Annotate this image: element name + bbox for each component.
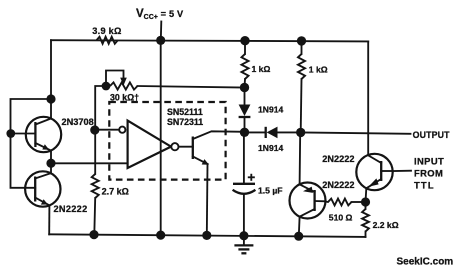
- node junction top rail / R4: [240, 36, 249, 45]
- wire VCC stub: [160, 22, 163, 41]
- wire ground rail: [49, 234, 365, 237]
- node junction VCC rail: [156, 36, 165, 45]
- wire pot to 1k/diode node: [138, 86, 245, 88]
- capacitor C1 1.5 uF: [233, 132, 256, 235]
- svg-text:2N2222: 2N2222: [54, 204, 88, 214]
- wire OUTPUT line: [301, 132, 411, 133]
- svg-text:2.2 kΩ: 2.2 kΩ: [373, 220, 399, 230]
- transistor Q1 2N3708: [26, 117, 61, 152]
- node junction Q1e/Q2c/op-amp input: [46, 159, 55, 168]
- resistor R3 2.7 kOhm: [92, 174, 99, 198]
- svg-text:SN52111: SN52111: [167, 107, 203, 117]
- resistor R4 1 kOhm (left): [242, 41, 249, 88]
- node junction gnd Q5 emitter: [202, 231, 211, 240]
- transistor Q5 internal output: [179, 131, 245, 235]
- wire 2.7k to ground rail: [93, 198, 96, 235]
- wire Q1 emitter to node: [50, 151, 52, 174]
- svg-text:1 kΩ: 1 kΩ: [309, 64, 328, 74]
- wire pot node down to inverting input and 2.7k: [95, 86, 106, 174]
- wire left rail drop: [50, 40, 52, 118]
- wire Q4 emitter down: [365, 188, 368, 202]
- diode D2 1N914 horizontal: [245, 127, 301, 139]
- wire INPUT line: [393, 170, 411, 172]
- svg-text:1N914: 1N914: [258, 104, 284, 114]
- svg-text:510 Ω: 510 Ω: [329, 213, 353, 223]
- resistor R7 2.2 kOhm: [362, 202, 369, 237]
- node VCC+ = 5 V label: [136, 8, 184, 21]
- svg-text:2N3708: 2N3708: [62, 117, 94, 127]
- node junction A (3.9k / Q1 collector / bases): [46, 94, 55, 103]
- svg-text:TTL: TTL: [414, 180, 435, 191]
- svg-text:2N2222: 2N2222: [322, 180, 354, 190]
- op-amp output bubble: [171, 143, 178, 150]
- wire Q2 emitter down: [48, 205, 50, 234]
- comparator dashed package box: [109, 102, 225, 180]
- wire top supply rail: [51, 40, 368, 41]
- node junction gnd VCC-line: [156, 231, 165, 240]
- wire inverting input: [95, 129, 119, 131]
- node junction gnd capacitor: [239, 231, 248, 240]
- node junction base Q1: [6, 129, 15, 138]
- node junction D1 cathode / cap / Q5 collector: [240, 128, 249, 137]
- op-amp inverting bubble: [119, 127, 125, 133]
- transistor Q4 2N2222 (upper right): [356, 154, 392, 190]
- node junction top rail / R5: [297, 36, 306, 45]
- svg-text:2N2222: 2N2222: [322, 154, 354, 164]
- resistor R5 1 kOhm (right): [298, 41, 305, 133]
- svg-text:SN72311: SN72311: [167, 117, 203, 127]
- op-amp U1 triangle: [128, 121, 171, 168]
- ground symbol: [234, 236, 253, 254]
- potentiometer R2 30 kOhm: [106, 71, 138, 90]
- svg-text:FROM: FROM: [414, 168, 443, 179]
- svg-text:2.7 kΩ: 2.7 kΩ: [102, 187, 129, 197]
- svg-text:1.5 µF: 1.5 µF: [258, 185, 283, 195]
- svg-text:3.9 kΩ: 3.9 kΩ: [92, 26, 121, 36]
- svg-text:OUTPUT: OUTPUT: [413, 130, 451, 140]
- node junction gnd Q3 emitter: [294, 232, 303, 241]
- svg-text:30 kΩ†: 30 kΩ†: [110, 92, 139, 102]
- svg-text:INPUT: INPUT: [414, 155, 444, 166]
- wire base feedback loop: [11, 99, 52, 188]
- wire Q1 base: [11, 133, 36, 135]
- node junction gnd 2.7k: [89, 230, 98, 239]
- node junction output: [296, 128, 305, 137]
- wire non-inverting input: [51, 162, 128, 164]
- node junction R4 / D1 / pot wire: [240, 83, 249, 92]
- resistor R6 510 Ohm: [325, 199, 365, 206]
- transistor Q2 2N2222 (left): [25, 171, 60, 206]
- diode D1 1N914 vertical: [239, 88, 251, 133]
- node junction inverting input tap: [90, 125, 99, 134]
- svg-text:1 kΩ: 1 kΩ: [252, 64, 271, 74]
- svg-text:SeekIC.com: SeekIC.com: [397, 256, 454, 267]
- wire right rail drop to Q4 collector: [367, 41, 369, 155]
- wire VCC vertical through package: [160, 40, 162, 235]
- svg-text:VCC+ = 5 V: VCC+ = 5 V: [136, 8, 184, 21]
- node junction Q4e / 510 / 2.2k: [361, 197, 370, 206]
- wire Q3 emitter to ground: [298, 217, 301, 237]
- resistor R1 3.9 kOhm: [97, 37, 118, 44]
- svg-text:1N914: 1N914: [258, 143, 284, 153]
- transistor Q3 2N2222 (lower right): [290, 183, 326, 219]
- wire Q3 collector to output node: [299, 132, 302, 184]
- node junction pot left/wiper: [102, 82, 111, 91]
